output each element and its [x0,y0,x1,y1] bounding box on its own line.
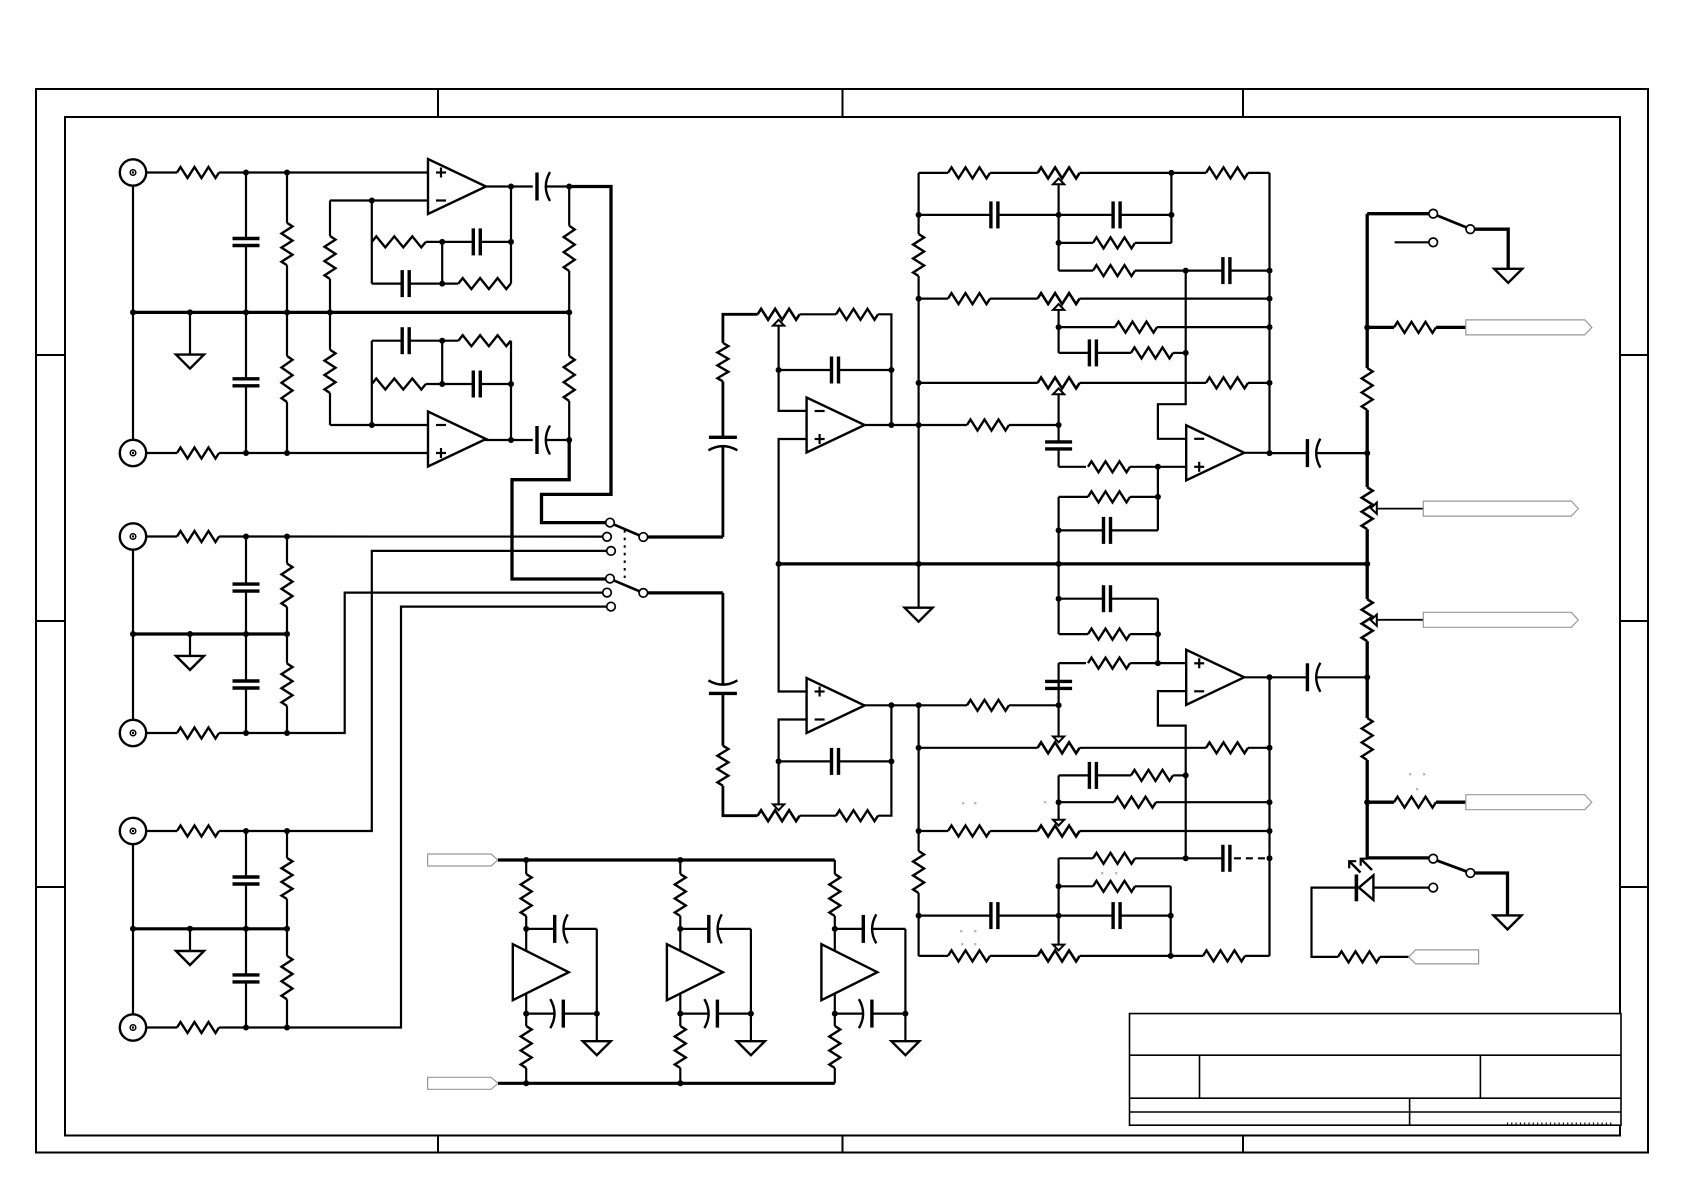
wire [146,830,177,832]
junction [1364,450,1370,456]
junction [243,534,249,540]
wire twin-T mid leg [441,341,443,384]
wire [1080,830,1270,832]
wire [132,634,134,720]
wire [990,830,1038,832]
junction [130,926,136,932]
resistor R44 [1093,881,1135,892]
wire [146,732,177,734]
title block [1130,1014,1622,1126]
resistor R54 [521,874,532,916]
connector J4 [120,720,146,746]
resistor R13 [325,236,336,279]
junction [369,198,375,204]
switch contact SW1b-2 [603,588,612,597]
capacitor C15 [709,692,737,695]
junction [1267,828,1273,834]
switch contact SW1a-3 [607,547,616,556]
wire [722,446,725,537]
junction [916,212,922,218]
junction [508,184,514,190]
junction [284,170,290,176]
wire [1057,564,1059,634]
capacitor C19 [1186,270,1223,272]
junction [439,381,445,387]
wire [1366,760,1369,802]
wire to U6 inv [1158,691,1186,858]
junction [1155,494,1161,500]
potentiometer RV6 [1038,742,1080,753]
wire [919,704,967,706]
junction [1155,464,1161,470]
wire [219,607,607,1028]
switch arm SW3 [1437,861,1467,872]
wire [800,313,836,315]
junction [284,1025,290,1031]
net flag V- [428,1077,498,1089]
wire [568,312,570,356]
resistor R53 [1338,951,1380,962]
capacitor C32 [526,1012,555,1014]
wire [834,1068,836,1083]
junction [594,1011,600,1017]
wire [679,916,681,1026]
resistor R2 [177,448,219,459]
connector J5 [120,818,146,844]
wire [1170,886,1172,956]
net flag OUT-R [1423,612,1578,627]
capacitor C20 [1059,352,1090,354]
junction [369,422,375,428]
wire [1057,775,1059,823]
net flag OUT-L [1423,501,1578,516]
wire [1135,857,1186,859]
wire [1130,466,1186,468]
potentiometer RV10 [1362,599,1373,641]
wire [1130,633,1158,635]
wire [510,340,512,342]
wire [568,187,570,226]
junction [1168,212,1174,218]
wire feedback right leg [878,314,891,425]
junction [243,631,249,637]
wire twin-T left leg [371,201,373,284]
wire [219,171,428,173]
resistor R25 [836,810,878,821]
resistor R5 [177,826,219,837]
wire [1057,394,1059,425]
wire tone-L right leg [1268,173,1270,453]
wire [919,830,948,832]
ground GND3 [189,929,191,951]
connector J3 [120,523,146,549]
capacitor C1 [245,173,247,239]
wire [1135,885,1171,887]
junction [284,534,290,540]
wire tone-L left leg [917,173,919,234]
junction [243,730,249,736]
junction [832,1011,838,1017]
junction [439,239,445,245]
wire center gnd bus [779,562,1368,565]
junction [1267,855,1273,861]
wire [442,340,458,342]
resistor R51 [1362,718,1373,760]
wire [525,1068,527,1083]
wire U3 +in to gnd bus [779,439,807,564]
resistor R32 [948,293,990,304]
wire [990,298,1038,300]
junction [1168,913,1174,919]
wire [834,860,836,874]
wire [596,929,598,1014]
switch contact SW2-1 [1429,209,1438,218]
junction [284,828,290,834]
wire [132,550,134,634]
wire [1080,955,1203,957]
wire [1130,662,1186,664]
wire [1173,352,1186,354]
wire to U5 inv [1158,271,1186,439]
wire U5 output [1244,452,1269,454]
junction [523,926,529,932]
junction [776,561,782,567]
junction [1056,324,1062,330]
wire tone-L left leg [917,276,919,564]
capacitor C11 [442,383,473,385]
ground GND7 [596,1014,598,1042]
resistor R18 [458,335,510,346]
capacitor C14 [779,369,832,371]
capacitor C8 [372,283,402,285]
capacitor C25 [919,914,991,916]
junction [1364,324,1370,330]
junction [888,702,894,708]
wire [1366,564,1369,599]
wire [1157,467,1159,531]
wire [1475,229,1509,269]
wire [286,312,288,356]
resistor R55 [521,1026,532,1068]
resistor R56 [675,874,686,916]
wire [919,955,948,957]
wire [426,241,442,243]
wire [329,312,331,349]
junction [916,380,922,386]
resistor R4 [177,728,219,739]
junction [1267,745,1273,751]
switch contact SW1a-com [639,533,648,542]
wire gnd bus 3 [133,927,287,930]
capacitor C9 [545,185,569,187]
resistor R43 [1093,853,1135,864]
wire [1057,184,1059,270]
resistor R42 [948,826,990,837]
wire [1170,173,1172,243]
op-amp U3 [807,398,865,453]
wire [219,593,603,733]
wire [1436,326,1466,329]
wire tone-R right leg [1268,677,1270,956]
wire [1057,705,1059,736]
resistor R15 [458,278,510,289]
junction [523,857,529,863]
resistor R8 [282,356,293,402]
specks [962,802,964,804]
junction [284,450,290,456]
wire [1080,747,1206,749]
potentiometer RV3 [1038,167,1080,178]
junction [566,309,572,315]
potentiometer RV9 [1362,487,1373,529]
junction [1056,596,1062,602]
switch gang link [624,530,626,578]
junction [1267,674,1273,680]
wire [219,551,607,831]
junction [1364,799,1370,805]
wire [1367,801,1394,804]
wire U1 output [486,185,533,187]
ground GND9 [904,1014,906,1042]
wire twin-T right leg [510,341,512,440]
wire [1366,410,1369,453]
junction [888,758,894,764]
resistor R31 [1093,265,1135,276]
resistor R52 [1394,797,1436,808]
resistor R9 [282,564,293,608]
capacitor C31 [526,928,555,930]
wire [286,173,288,223]
resistor R57 [675,1026,686,1068]
junction [1267,296,1273,302]
switch contact SW2-2 [1429,238,1438,247]
junction [1364,561,1370,567]
capacitor C27 [1057,681,1059,705]
capacitor C18 [1059,214,1114,216]
connector J2 [120,440,146,466]
capacitor C17 [919,214,991,216]
resistor R28 [948,167,990,178]
op-amp U1 [428,159,486,214]
wire [1057,858,1059,945]
junction [1168,170,1174,176]
potentiometer RV1 [758,309,800,320]
junction [508,437,514,443]
wire [286,402,288,453]
op-amp U2 [428,412,486,467]
wire U6 output [1244,676,1269,678]
resistor R45 [948,950,990,961]
resistor R24 [717,746,728,786]
wire [286,929,288,956]
junction [1056,913,1062,919]
wire [329,393,331,425]
wire [286,537,288,564]
junction [1056,422,1062,428]
wire out-R chain [1366,677,1369,718]
LED D1 [1359,875,1374,900]
op-amp U6 [1186,650,1244,705]
junction [1056,212,1062,218]
wire [1245,955,1270,957]
wire [1156,801,1270,803]
wire [919,747,1038,749]
wire [1059,466,1086,468]
wire [132,186,134,313]
connector J1 [120,159,146,185]
junction [508,239,514,245]
switch contact SW1b-com [639,589,648,598]
switch arm SW1a [614,524,640,535]
capacitor C12 [545,439,569,441]
wire [990,955,1038,957]
junction [888,422,894,428]
wire tone-R left leg [917,705,919,851]
wire [679,1068,681,1083]
wire U4 +in to gnd bus [779,564,807,692]
wire [1057,497,1059,564]
junction [1056,527,1062,533]
resistor R10 [282,664,293,706]
net flag V+ [428,854,498,866]
resistor R40 [1131,770,1173,781]
wire [1367,212,1429,215]
resistor R58 [829,874,840,916]
junction [776,367,782,373]
wire [286,265,288,312]
junction [916,745,922,751]
wire [146,452,177,454]
wire [525,916,527,1026]
wire [132,844,134,929]
resistor R59 [829,1026,840,1068]
wire [1367,326,1394,329]
wire [800,815,836,817]
wire [1367,802,1429,858]
wire [1009,704,1059,706]
resistor R20 [564,356,575,401]
wire [219,535,603,537]
op-amp buffer U9 [821,944,877,1000]
wire [1366,529,1369,564]
switch contact SW3-com [1466,869,1475,878]
resistor R14 [372,236,426,247]
junction [243,828,249,834]
resistor R17 [325,350,336,393]
switch contact SW1a-2 [603,533,612,542]
wire gnd bus 1 [133,311,569,314]
ground GND6 [1494,915,1522,929]
capacitor C29 [1270,452,1308,454]
wire tone-R left leg [917,893,919,956]
resistor R26 [967,700,1009,711]
wire [750,929,752,1014]
wire [132,929,134,1014]
capacitor C21 [1057,425,1059,442]
wire selector R out [648,591,723,594]
wire [1135,242,1171,244]
junction [916,828,922,834]
wire [919,172,948,174]
capacitor C5 [245,831,247,877]
capacitor C16 [779,760,832,762]
resistor R7 [282,223,293,265]
resistor R47 [1088,658,1130,669]
wire [1059,326,1115,328]
junction [1056,799,1062,805]
junction [1056,883,1062,889]
capacitor C22 [1059,529,1104,531]
wire [1234,857,1270,859]
wire [722,593,725,685]
wire [146,1026,177,1028]
junction [1267,799,1273,805]
junction [1267,380,1273,386]
capacitor C10 [372,340,402,342]
junction [1364,674,1370,680]
wire [1373,886,1429,888]
wire [919,424,967,426]
wire [1380,956,1409,958]
capacitor C35 [835,928,864,930]
ground GND4 [917,564,919,608]
wire U4 output [865,704,919,706]
wire [722,381,725,437]
wire [286,899,288,929]
net flag LED-PWR [1409,950,1479,964]
capacitor C33 [680,928,709,930]
wire [1059,857,1093,859]
capacitor C4 [245,634,247,681]
junction [1056,561,1062,567]
junction [523,1080,529,1086]
junction [187,309,193,315]
wire [568,401,570,440]
wire twin-T right leg [510,187,512,284]
capacitor C3 [245,537,247,585]
junction [130,309,136,315]
junction [566,437,572,443]
junction [916,422,922,428]
capacitor C13 [709,436,737,439]
wire U3 output [865,424,919,426]
wire [919,298,948,300]
wire U4 inv input [779,720,807,805]
potentiometer RV2 [758,810,800,821]
wire [1248,747,1270,749]
wire inv input U2 [330,424,428,426]
wire [525,860,527,874]
switch contact SW3-1 [1429,854,1438,863]
wire [1059,662,1086,664]
capacitor C26 [1059,914,1114,916]
wire [1009,424,1059,426]
capacitor C36 [835,1012,864,1014]
wire [329,279,331,312]
wire [146,171,177,173]
wire [146,535,177,537]
resistor R34 [1131,347,1173,358]
wire [1080,298,1270,300]
junction [1183,350,1189,356]
junction [243,170,249,176]
junction [523,1011,529,1017]
resistor R35 [1206,377,1248,388]
wire [286,607,288,634]
wire inv input U1 [330,199,428,201]
switch contact SW1b-3 [607,602,616,611]
wire [990,172,1038,174]
